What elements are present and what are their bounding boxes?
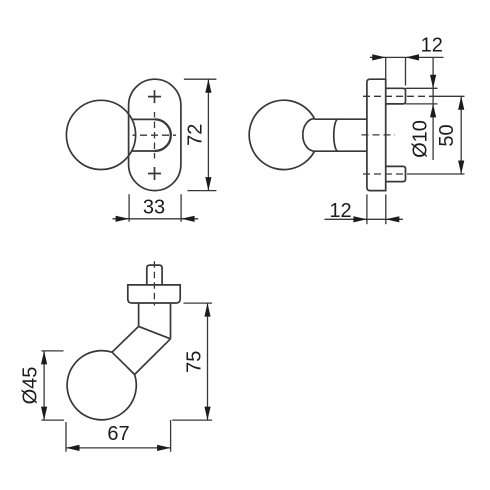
svg-text:Ø10: Ø10 (409, 120, 431, 158)
tube right edge (170, 303, 172, 339)
dim O45 extension lines (41, 351, 64, 420)
dim 33 arrow right-outside (181, 216, 195, 222)
dim 12 bottom line (325, 218, 403, 220)
dim 75 line (207, 303, 209, 420)
dim 50 arrow up (458, 96, 464, 110)
dim 67 line (66, 447, 171, 449)
angled neck upper edge (112, 326, 139, 352)
centerline vertical (front) (154, 112, 156, 159)
ball junction crease (112, 352, 135, 374)
dim O45 line (43, 351, 45, 420)
neck-to-ball junction arc (side) (303, 119, 315, 152)
dim 67 extension lines (66, 420, 171, 452)
dim 50 arrow down (458, 161, 464, 175)
dim 12 bottom arrow left-outside (353, 216, 367, 222)
knob neck arc (front) (155, 119, 171, 151)
knob neck lines (front) (132, 119, 155, 151)
dim O45 arrow down (41, 407, 47, 421)
collar (128, 285, 180, 303)
dim 33 arrow left-outside (116, 216, 130, 222)
rosette plate (side) (367, 79, 386, 190)
knob ball (front) (66, 100, 135, 169)
dim 12 top arrow right-outside (406, 54, 420, 60)
svg-text:12: 12 (329, 200, 351, 222)
dim 33 line (113, 218, 199, 220)
svg-text:75: 75 (184, 351, 206, 373)
dim 72 extension lines (184, 79, 217, 190)
bottom screw centerline (363, 173, 408, 175)
dim 72 arrow down (205, 177, 211, 191)
top screw edge extension lines (406, 88, 438, 104)
knob ball (side) (249, 100, 314, 169)
bend crease (139, 326, 171, 338)
dim O10 arrow down (430, 75, 436, 89)
dim 33 extension lines (129, 194, 181, 222)
centerline horizontal (front) (133, 134, 177, 136)
dim 12 top line (370, 56, 444, 58)
svg-text:50: 50 (436, 124, 458, 146)
dim O45 arrow up (41, 351, 47, 365)
dim 72 line (207, 79, 209, 190)
svg-text:67: 67 (107, 423, 129, 445)
angled neck lower edge (135, 339, 171, 375)
top screw centerline (363, 95, 434, 97)
screw mark bottom (+) (148, 167, 161, 180)
spindle square (147, 265, 162, 285)
dim 75 extension lines (172, 303, 212, 420)
oval rosette plate (129, 79, 181, 190)
dim 50 line (460, 96, 462, 174)
svg-text:72: 72 (185, 124, 207, 146)
bottom screw centerline extension (50 dim) (408, 173, 465, 175)
dim 12 bottom arrow right-outside (386, 216, 400, 222)
svg-text:12: 12 (421, 34, 443, 56)
dim 12 top extension lines (386, 57, 406, 85)
bottom screw (386, 166, 406, 181)
svg-text:33: 33 (143, 197, 165, 219)
tube left edge (138, 303, 140, 326)
knob ball (cranked) (67, 351, 136, 420)
plate centerline dashed (362, 134, 396, 136)
dim O10 line (432, 57, 434, 160)
neck cone/cylinder arc (side) (334, 119, 338, 151)
dim 67 arrow left (66, 445, 80, 451)
top screw (386, 88, 406, 104)
dim 72 arrow up (205, 79, 211, 93)
svg-text:Ø45: Ø45 (20, 367, 42, 405)
dim 75 arrow down (204, 407, 210, 421)
neck lines (side) (315, 119, 367, 151)
dim 67 arrow right (157, 445, 171, 451)
dim 75 arrow up (204, 303, 210, 317)
dim O10 arrow up (430, 104, 436, 118)
screw mark top (+) (148, 90, 161, 103)
spindle centerline dashed (153, 261, 155, 305)
top screw centerline extension (50 dim) (434, 95, 465, 97)
dim 12 bottom extension lines (367, 194, 386, 224)
dim 12 top arrow left-outside (372, 54, 386, 60)
